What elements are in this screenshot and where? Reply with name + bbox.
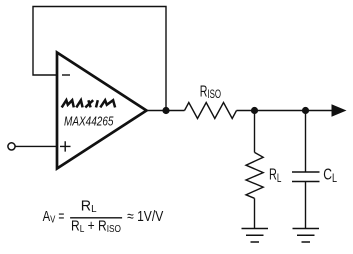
resistor RISO xyxy=(185,103,237,119)
wire CL to ground xyxy=(305,182,307,229)
node RL junction xyxy=(251,107,258,114)
svg-text:RL: RL xyxy=(81,199,97,216)
op-amp U1 xyxy=(57,53,147,169)
node CL junction xyxy=(302,107,309,114)
svg-text:RL: RL xyxy=(269,166,282,185)
svg-text:RL + RISO: RL + RISO xyxy=(71,219,121,236)
formula gain equation xyxy=(43,199,164,236)
capacitor CL xyxy=(292,172,320,182)
ground CL xyxy=(293,229,320,243)
non-inverting input plus sign xyxy=(60,141,71,151)
wire output xyxy=(147,110,185,112)
svg-text:=: = xyxy=(58,209,64,225)
wire RL to ground xyxy=(254,198,256,228)
input terminal circle xyxy=(8,143,15,150)
node output junction xyxy=(162,107,169,114)
wire node to RL xyxy=(254,111,256,153)
wire RISO to arrow xyxy=(237,110,336,112)
svg-text:≈ 1V/V: ≈ 1V/V xyxy=(127,209,163,225)
svg-text:CL: CL xyxy=(323,167,337,186)
svg-text:MAX44265: MAX44265 xyxy=(64,115,114,129)
svg-text:AV: AV xyxy=(43,209,56,226)
ground RL xyxy=(242,229,269,243)
wire non-inverting input xyxy=(15,145,57,147)
resistor RL xyxy=(246,152,263,198)
arrow output xyxy=(332,104,347,116)
MAXIM logo xyxy=(62,100,115,107)
inverting input minus sign xyxy=(62,74,70,76)
wire node to CL xyxy=(305,111,307,173)
svg-text:RISO: RISO xyxy=(200,83,221,101)
wire feedback loop xyxy=(33,7,166,111)
